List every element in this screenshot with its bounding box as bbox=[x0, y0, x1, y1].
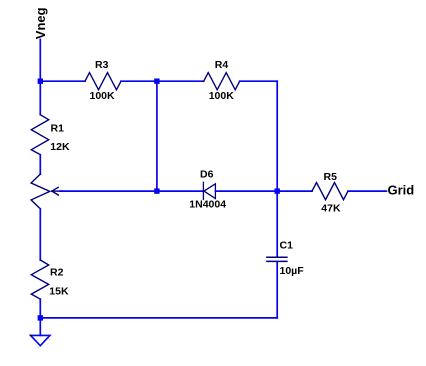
svg-text:R3: R3 bbox=[95, 59, 109, 71]
wire junction to diode cathode bbox=[157, 190, 204, 192]
wire R5 right to Grid port bbox=[348, 190, 386, 192]
svg-text:D6: D6 bbox=[200, 169, 214, 181]
resistor R4 bbox=[204, 73, 240, 90]
resistor R3 bbox=[85, 73, 121, 90]
wire wiper to mid junction bbox=[60, 190, 157, 192]
resistor R1 bbox=[31, 115, 48, 155]
diode D6 bbox=[203, 182, 215, 199]
svg-text:Grid: Grid bbox=[388, 183, 415, 198]
node junction mid-right bbox=[275, 188, 280, 193]
svg-text:47K: 47K bbox=[321, 202, 341, 214]
node junction mid-left bbox=[154, 188, 159, 193]
capacitor C1 bbox=[267, 257, 287, 261]
node junction top middle bbox=[154, 79, 159, 84]
wire C1 bottom plate down to bottom rail corner bbox=[276, 262, 278, 318]
svg-text:Vneg: Vneg bbox=[33, 7, 48, 39]
wire R1 bottom to potentiometer top bbox=[39, 155, 41, 174]
node junction at Vneg/R3/R1 bbox=[38, 79, 43, 84]
wire R2 bottom to ground junction bbox=[39, 299, 41, 318]
wire R3 right to R4 left (through middle junction) bbox=[121, 80, 204, 82]
wire junction to R5 left bbox=[277, 190, 312, 192]
svg-text:R4: R4 bbox=[215, 59, 229, 71]
svg-text:C1: C1 bbox=[280, 239, 294, 251]
svg-text:100K: 100K bbox=[90, 90, 116, 102]
resistor R2 bbox=[31, 260, 48, 299]
svg-text:1N4004: 1N4004 bbox=[189, 199, 226, 211]
wire right rail junction down to C1 top plate bbox=[276, 191, 278, 257]
ground bbox=[31, 335, 50, 345]
wire R4 right to top-right corner bbox=[240, 80, 278, 82]
wire middle rail (top junction down to mid rail) bbox=[156, 81, 158, 191]
wire junction to R3 left bbox=[40, 80, 85, 82]
svg-text:12K: 12K bbox=[50, 141, 70, 153]
wire pot bottom to R2 top bbox=[39, 209, 41, 260]
svg-text:R2: R2 bbox=[50, 267, 64, 279]
wire Vneg down to junction and R1 top bbox=[39, 39, 41, 114]
svg-text:R1: R1 bbox=[51, 123, 65, 135]
svg-text:100K: 100K bbox=[209, 90, 235, 102]
svg-text:10µF: 10µF bbox=[280, 265, 305, 277]
wire right rail down from corner to mid junction bbox=[276, 81, 278, 191]
node junction bottom-left bbox=[38, 315, 43, 320]
potentiometer element bbox=[31, 174, 50, 209]
svg-text:R5: R5 bbox=[324, 171, 338, 183]
wire diode anode to right junction bbox=[215, 190, 277, 192]
potentiometer wiper arrow bbox=[52, 187, 62, 195]
wire bottom rail bbox=[40, 317, 277, 319]
svg-text:15K: 15K bbox=[49, 286, 69, 298]
wire junction down to ground symbol bbox=[39, 318, 41, 336]
resistor R5 bbox=[312, 183, 348, 200]
